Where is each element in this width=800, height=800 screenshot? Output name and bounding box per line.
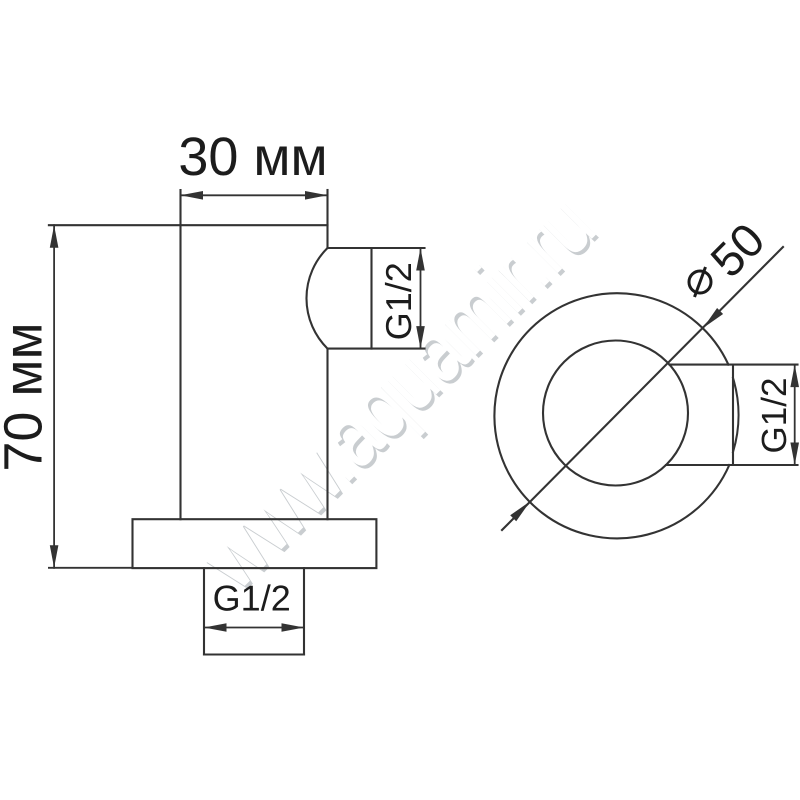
- connector top edge + extension (side view): [670, 364, 798, 366]
- connector right face (front view): [370, 248, 372, 349]
- 70mm bottom extension line: [49, 567, 133, 569]
- svg-text:30 мм: 30 мм: [178, 127, 327, 187]
- diameter symbol: [689, 267, 711, 297]
- label G1/2 (connector front): [378, 262, 419, 340]
- label G1/2 (side view): [755, 378, 794, 454]
- connector end bulge arc (side view): [733, 378, 739, 452]
- svg-text:G1/2: G1/2: [378, 262, 419, 340]
- inner circle: [543, 341, 688, 486]
- connector end face (side view): [732, 365, 734, 465]
- diameter arrowheads: [510, 308, 723, 521]
- pipe right edge: [303, 568, 305, 654]
- connector bottom edge + extension (front view): [328, 348, 425, 350]
- dimension 30 mm: [181, 194, 328, 196]
- svg-text:G1/2: G1/2: [213, 578, 291, 619]
- wire: body right edge upper + 30mm right extension: [326, 190, 328, 248]
- connector bottom edge + extension (side view): [666, 464, 798, 466]
- svg-text:G1/2: G1/2: [755, 378, 794, 454]
- diameter leader line: [502, 247, 783, 530]
- dimension 70 mm: [49, 225, 133, 568]
- label 50: [700, 213, 774, 287]
- wire: body right edge lower: [326, 349, 328, 520]
- connector top edge + extension (front view): [328, 247, 425, 249]
- wire: body top edge + 70mm top extension line: [49, 224, 328, 226]
- dimension G1/2 side connector (front view): [420, 248, 422, 349]
- wire: body left edge + 30mm left extension: [179, 190, 181, 519]
- outer circle (arc clipped at connector): [494, 293, 729, 538]
- connector bulge arc (front view): [306, 248, 327, 349]
- svg-text:70 мм: 70 мм: [0, 322, 54, 471]
- pipe bottom edge: [204, 653, 304, 655]
- watermark www.aquamir.ru: [180, 175, 616, 611]
- label 70 mm: [0, 322, 54, 471]
- flange rect: [133, 519, 377, 568]
- dimension G1/2 (side view right): [794, 365, 796, 465]
- pipe left edge: [203, 568, 205, 654]
- dimension G1/2 bottom pipe: [204, 627, 304, 629]
